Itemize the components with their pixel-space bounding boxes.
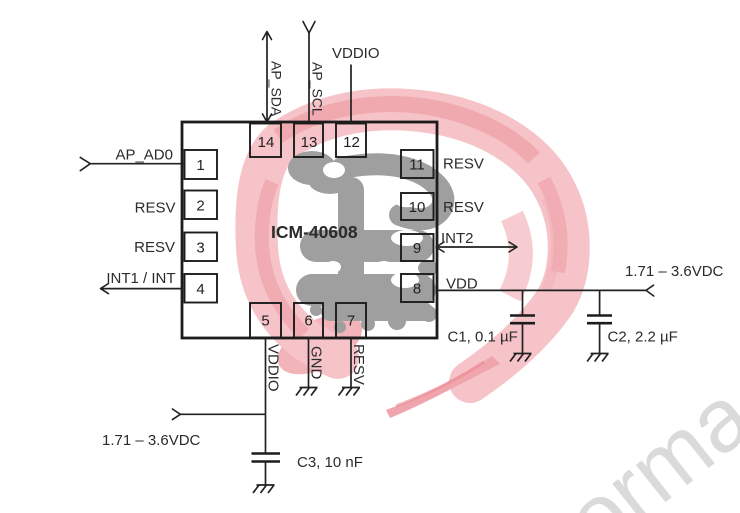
svg-text:6: 6 — [304, 313, 312, 330]
wire INT1/INT arrow from pin 4 — [101, 284, 183, 294]
svg-text:14: 14 — [258, 134, 275, 151]
svg-text:4: 4 — [196, 281, 204, 298]
svg-text:9: 9 — [413, 240, 421, 257]
svg-text:C3, 10 nF: C3, 10 nF — [297, 454, 363, 471]
pin 11 — [401, 150, 434, 178]
svg-text:7: 7 — [347, 313, 355, 330]
wire RESV from pin 7 — [350, 338, 352, 388]
pin 1 — [185, 150, 218, 179]
svg-text:RESV: RESV — [443, 199, 484, 216]
capacitor C1 — [510, 290, 535, 353]
pin 9 — [401, 234, 434, 261]
svg-text:AP_SCL: AP_SCL — [310, 62, 326, 116]
pin 12 — [336, 124, 366, 158]
svg-text:VDD: VDD — [446, 276, 478, 293]
svg-text:RESV: RESV — [443, 156, 484, 173]
capacitor C3 — [252, 414, 281, 485]
svg-text:VDDIO: VDDIO — [332, 45, 380, 62]
svg-text:RESV: RESV — [350, 344, 367, 385]
wire VDD net from pin 8 — [437, 285, 654, 296]
wire AP_AD0 to pin 1 — [80, 157, 184, 170]
pin 14 — [250, 124, 281, 158]
svg-text:INT1 / INT: INT1 / INT — [106, 270, 175, 287]
svg-text:GND: GND — [308, 346, 325, 380]
IC U1 ICM-40608 body — [182, 122, 437, 338]
svg-text:1.71 – 3.6VDC: 1.71 – 3.6VDC — [625, 263, 724, 280]
svg-text:2: 2 — [196, 198, 204, 215]
wire GND from pin 6 — [308, 338, 310, 388]
capacitor C2 — [587, 290, 612, 353]
svg-text:1.71 – 3.6VDC: 1.71 – 3.6VDC — [102, 432, 201, 449]
svg-text:8: 8 — [413, 281, 421, 298]
wire AP_SDA double arrow to pin 14 — [263, 32, 272, 123]
svg-text:VDDIO: VDDIO — [265, 344, 282, 392]
ground under C2 — [587, 354, 609, 362]
ground under pin 7 — [339, 388, 361, 396]
ground under pin 6 — [296, 388, 318, 396]
svg-text:INT2: INT2 — [441, 230, 474, 247]
wire 1.71-3.6VDC feed to VDDIO node — [172, 409, 265, 420]
pin 3 — [185, 233, 218, 262]
svg-text:12: 12 — [343, 134, 360, 151]
svg-text:10: 10 — [409, 199, 426, 216]
pin 4 — [185, 274, 218, 303]
pin 10 — [401, 193, 434, 220]
pin 2 — [185, 191, 218, 220]
svg-text:C1, 0.1 µF: C1, 0.1 µF — [448, 329, 518, 346]
svg-text:AP_AD0: AP_AD0 — [115, 147, 173, 164]
svg-text:RESV: RESV — [135, 200, 176, 217]
svg-text:C2, 2.2 µF: C2, 2.2 µF — [608, 329, 678, 346]
watermark layer (decorative) — [256, 104, 740, 513]
wire VDDIO net from pin 5 — [265, 338, 267, 414]
wire INT2 double arrow from pin 9 — [436, 242, 517, 252]
ground under C1 — [510, 354, 532, 362]
svg-text:3: 3 — [196, 240, 204, 257]
pin 8 — [401, 274, 434, 302]
wire AP_SCL to pin 13 — [303, 22, 315, 123]
svg-text:ICM-40608: ICM-40608 — [271, 222, 358, 242]
svg-text:RESV: RESV — [134, 239, 175, 256]
svg-text:1: 1 — [196, 157, 204, 174]
ground under C3 — [253, 485, 275, 493]
svg-text:AP_SDA: AP_SDA — [269, 61, 285, 117]
pin 13 — [294, 124, 323, 158]
svg-text:13: 13 — [301, 134, 318, 151]
svg-text:11: 11 — [409, 157, 425, 174]
pin 5 — [250, 303, 281, 338]
wire VDDIO to pin 12 — [350, 65, 352, 123]
svg-text:5: 5 — [261, 313, 269, 330]
pin 7 — [336, 303, 366, 338]
pin 6 — [294, 303, 323, 338]
